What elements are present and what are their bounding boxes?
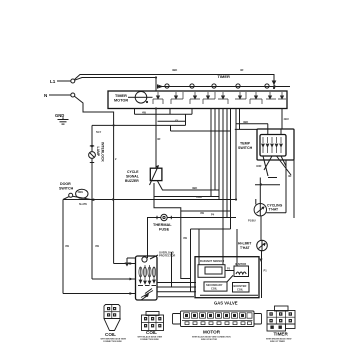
- svg-text:CYCLE: CYCLE: [127, 170, 139, 174]
- svg-text:PROTECTOR: PROTECTOR: [159, 254, 175, 258]
- svg-text:4Y: 4Y: [175, 119, 178, 123]
- svg-text:GAS VALVE: GAS VALVE: [214, 301, 238, 306]
- svg-text:DOOR: DOOR: [60, 182, 71, 186]
- svg-text:CONNECTION SIDE: CONNECTION SIDE: [140, 339, 159, 341]
- svg-text:P4: P4: [211, 213, 215, 217]
- svg-text:INTERLOCK: INTERLOCK: [101, 142, 105, 162]
- svg-text:4W: 4W: [142, 111, 146, 115]
- svg-text:4BK: 4BK: [243, 120, 248, 124]
- svg-text:P1: P1: [264, 269, 268, 273]
- svg-text:COIL: COIL: [237, 288, 244, 292]
- svg-text:TIMER: TIMER: [274, 332, 289, 337]
- svg-text:T'HAT: T'HAT: [269, 207, 280, 211]
- svg-text:GND: GND: [55, 113, 64, 118]
- svg-text:4BK: 4BK: [172, 68, 177, 72]
- svg-text:FUSE: FUSE: [159, 228, 170, 232]
- svg-text:4BK: 4BK: [192, 186, 197, 190]
- svg-text:4W: 4W: [65, 244, 69, 248]
- svg-text:4WH: 4WH: [78, 191, 84, 194]
- svg-text:SWITCH: SWITCH: [59, 187, 74, 191]
- svg-text:RADIANT SENSOR: RADIANT SENSOR: [200, 259, 224, 263]
- svg-text:L1: L1: [50, 79, 56, 84]
- svg-text:TIMER: TIMER: [115, 94, 127, 98]
- svg-text:CONNECTION SIDE: CONNECTION SIDE: [103, 341, 122, 343]
- svg-text:MOTOR: MOTOR: [203, 330, 221, 335]
- svg-text:5GY: 5GY: [96, 130, 101, 134]
- svg-text:BOOSTER: BOOSTER: [234, 284, 247, 288]
- svg-text:COIL: COIL: [211, 287, 218, 291]
- svg-text:THERMAL: THERMAL: [153, 223, 172, 227]
- svg-text:SIDE OF MOTOR: SIDE OF MOTOR: [201, 339, 218, 341]
- svg-text:MOTOR: MOTOR: [114, 98, 128, 102]
- svg-text:SWITCH: SWITCH: [238, 146, 253, 150]
- svg-text:4BU: 4BU: [284, 117, 289, 121]
- svg-text:SIGNAL: SIGNAL: [126, 175, 139, 179]
- svg-text:P1/BU: P1/BU: [248, 219, 256, 223]
- svg-text:LAMP: LAMP: [96, 147, 100, 157]
- svg-text:4R: 4R: [240, 68, 243, 72]
- svg-text:4R: 4R: [157, 137, 160, 141]
- svg-text:COIL: COIL: [105, 332, 116, 337]
- svg-text:SECONDARY: SECONDARY: [206, 283, 223, 287]
- svg-text:4WH: 4WH: [196, 195, 202, 199]
- svg-text:SIDE OF TIMER: SIDE OF TIMER: [270, 341, 285, 343]
- svg-text:4W: 4W: [95, 244, 99, 248]
- svg-text:BUZZER: BUZZER: [125, 179, 139, 183]
- svg-text:T'HAT: T'HAT: [240, 246, 251, 250]
- svg-text:4OR: 4OR: [256, 164, 261, 168]
- svg-text:4W: 4W: [200, 211, 204, 215]
- svg-text:TEMP: TEMP: [240, 142, 251, 146]
- svg-text:SLATE: SLATE: [79, 203, 87, 206]
- svg-text:COIL: COIL: [146, 330, 157, 335]
- svg-text:4R: 4R: [288, 174, 291, 178]
- svg-text:TIMER: TIMER: [218, 74, 231, 79]
- svg-text:4W: 4W: [183, 236, 187, 240]
- svg-text:IGNITOR: IGNITOR: [235, 262, 246, 266]
